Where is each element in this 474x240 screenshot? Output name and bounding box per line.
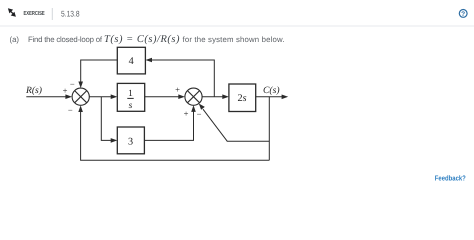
wire S1 to block 1/s	[89, 94, 117, 99]
svg-text:?: ?	[461, 11, 465, 18]
wire branch down to block 3	[101, 97, 117, 143]
input wire	[26, 94, 72, 99]
svg-text:2s: 2s	[237, 93, 246, 104]
wire 1/s to summer S2	[145, 94, 185, 99]
svg-text:+: +	[175, 84, 180, 94]
svg-text:−: −	[68, 105, 73, 115]
block 1/s	[117, 83, 144, 111]
svg-text:+: +	[63, 85, 68, 95]
outer feedback wire into S1 bottom	[78, 105, 269, 160]
svg-text:4: 4	[129, 56, 134, 67]
svg-text:s: s	[129, 101, 133, 111]
summing junction S1	[72, 88, 89, 105]
wire S2 to block 2s	[202, 94, 229, 99]
wire tap up to block 4	[145, 58, 214, 97]
block 4	[117, 47, 145, 74]
help icon	[459, 10, 467, 18]
svg-text:EXERCISE: EXERCISE	[24, 10, 45, 17]
svg-text:−: −	[197, 109, 202, 119]
svg-text:1: 1	[128, 89, 133, 99]
svg-text:−: −	[70, 79, 75, 89]
svg-text:3: 3	[128, 136, 133, 147]
problem statement	[10, 35, 285, 44]
block 3	[117, 127, 144, 154]
wire block 4 down into S1 top	[78, 60, 117, 88]
svg-text:Feedback?: Feedback?	[435, 173, 466, 182]
block 2s	[229, 84, 256, 112]
summing junction S2	[185, 88, 202, 105]
svg-text:R(s): R(s)	[25, 85, 42, 96]
svg-text:5.13.8: 5.13.8	[61, 9, 80, 18]
svg-text:for the system shown below.: for the system shown below.	[183, 35, 285, 44]
svg-text:T(s) = C(s)/R(s): T(s) = C(s)/R(s)	[104, 34, 180, 45]
header divider bar	[51, 8, 53, 20]
inner feedback horizontal	[227, 140, 269, 142]
output wire	[256, 95, 289, 100]
svg-text:(a): (a)	[10, 35, 20, 44]
output tap down	[268, 97, 270, 161]
svg-text:C(s): C(s)	[263, 85, 280, 96]
header bottom rule	[0, 25, 474, 27]
inner feedback diagonal into S2	[199, 104, 227, 142]
svg-text:Find the closed-loop of: Find the closed-loop of	[28, 35, 103, 44]
wire block 3 up into S2 bottom	[144, 105, 195, 140]
header expand icon	[8, 8, 16, 16]
svg-text:+: +	[184, 109, 189, 119]
